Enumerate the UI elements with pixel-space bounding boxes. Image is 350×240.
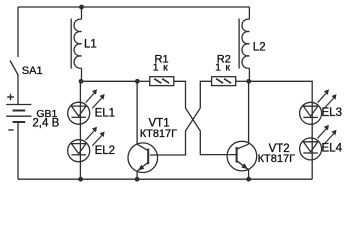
- wire left LED chain: [79, 81, 81, 179]
- wire node B to LED chain: [249, 81, 312, 179]
- wire R2 right lead: [236, 80, 249, 82]
- junction dot node C: [135, 79, 140, 84]
- resistor R2: [212, 53, 236, 85]
- led EL3: [300, 89, 342, 124]
- svg-text:2,4 В: 2,4 В: [32, 118, 59, 130]
- junction dot EL2 bottom: [78, 177, 83, 182]
- svg-text:КТ817Г: КТ817Г: [258, 153, 295, 165]
- wire battery to bottom rail: [17, 122, 19, 179]
- svg-text:1 к: 1 к: [153, 62, 168, 74]
- switch SA1: [10, 61, 43, 78]
- svg-text:1 к: 1 к: [215, 62, 230, 74]
- wire R1 to crossing: [174, 81, 186, 108]
- svg-text:EL1: EL1: [95, 107, 115, 119]
- wire crossing R1 to VT2 base: [186, 108, 237, 155]
- led EL2: [68, 127, 115, 162]
- transistor VT2: [227, 141, 295, 179]
- wire node A to node C: [81, 80, 137, 82]
- wire top rail: [18, 6, 250, 8]
- svg-text:L2: L2: [253, 41, 266, 53]
- inductor L2: [239, 7, 265, 81]
- svg-text:КТ817Г: КТ817Г: [140, 128, 177, 140]
- junction dot VT1 emitter: [135, 177, 140, 182]
- inductor L1: [71, 7, 97, 81]
- wire R2 to crossing: [200, 81, 211, 108]
- wire VT2 collector rise: [248, 81, 250, 144]
- resistor R1: [150, 53, 174, 85]
- svg-text:EL3: EL3: [322, 107, 342, 119]
- wire switch to battery: [17, 76, 19, 105]
- junction dot VT2 emitter: [246, 177, 251, 182]
- junction dot L1 top: [79, 5, 84, 10]
- wire VT1 collector drop: [136, 81, 138, 144]
- wire node C to R1: [137, 80, 149, 82]
- svg-text:SA1: SA1: [22, 65, 43, 77]
- battery GB1: [6, 94, 59, 130]
- wire left rail upper: [17, 7, 19, 57]
- led EL1: [68, 89, 115, 124]
- svg-text:EL4: EL4: [322, 143, 343, 155]
- led EL4: [300, 125, 343, 160]
- svg-text:EL2: EL2: [95, 145, 115, 157]
- svg-text:L1: L1: [84, 39, 97, 51]
- wire bottom rail: [18, 178, 312, 180]
- node A junction dot: [79, 79, 84, 84]
- wire crossing R2 to VT1 base: [150, 108, 201, 155]
- node B junction dot: [246, 79, 251, 84]
- transistor VT1: [128, 117, 177, 179]
